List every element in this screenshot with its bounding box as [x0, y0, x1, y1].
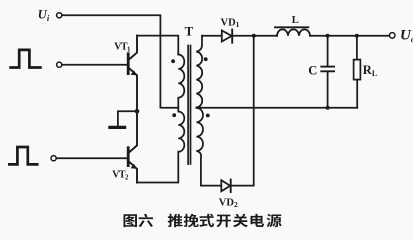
node diode junction: [252, 34, 256, 38]
transformer T core: [188, 46, 190, 165]
svg-text:VD1: VD1: [221, 17, 240, 29]
wire VD2 cathode to junction riser: [231, 185, 253, 187]
polarity dot primary bottom: [172, 113, 176, 117]
svg-text:VT2: VT2: [112, 170, 129, 182]
wire VT1 collector to primary top: [137, 36, 178, 55]
svg-text:Ui: Ui: [38, 8, 50, 23]
wire to VT2 base: [57, 157, 127, 159]
node capacitor top: [326, 34, 330, 38]
polarity dot primary top: [171, 59, 175, 63]
node resistor top: [355, 34, 359, 38]
svg-text:Uo: Uo: [400, 27, 413, 43]
wire diode junction down to VD2: [253, 36, 255, 186]
wire secondary top to VD1: [202, 35, 222, 37]
terminal Ui: [38, 8, 62, 23]
svg-text:L: L: [292, 15, 299, 26]
svg-text:T: T: [185, 24, 194, 39]
transformer T primary winding: [178, 55, 184, 152]
wire Ui feed to primary center tap: [62, 15, 178, 108]
inductor L: [275, 15, 310, 36]
pulse input 1: [11, 50, 41, 68]
diode VD2: [219, 180, 238, 210]
terminal VT1 base: [57, 62, 62, 67]
svg-text:VD2: VD2: [219, 197, 238, 209]
ground: [110, 111, 136, 127]
transformer T secondary winding top half: [196, 36, 202, 108]
terminal Uo: [389, 27, 413, 43]
svg-text:RL: RL: [363, 63, 377, 78]
wire secondary bottom to VD2: [201, 185, 221, 187]
wire VD1 cathode to node: [233, 35, 254, 37]
wire VT2 emitter to primary bottom: [137, 152, 178, 183]
polarity dot secondary bottom: [206, 114, 210, 118]
wire bottom rail secondary center tap to RL: [196, 107, 357, 109]
svg-text:VT1: VT1: [114, 41, 131, 53]
transistor VT1: [114, 36, 137, 112]
transistor VT2: [112, 111, 137, 182]
node capacitor bottom: [326, 106, 330, 110]
transformer T secondary winding bottom half: [196, 108, 203, 186]
caption 图六 推挽式开关电源: [124, 214, 282, 227]
svg-text:C: C: [308, 64, 317, 78]
node ground junction: [135, 109, 140, 114]
resistor RL: [354, 36, 378, 108]
diode VD1: [221, 17, 240, 42]
pulse input 2: [9, 147, 37, 164]
polarity dot secondary top: [204, 57, 208, 61]
capacitor C: [308, 36, 334, 108]
wire to VT1 base: [62, 64, 127, 66]
wire inductor to output rail: [310, 35, 389, 37]
terminal VT2 base: [51, 156, 56, 161]
wire node to inductor: [254, 35, 277, 37]
